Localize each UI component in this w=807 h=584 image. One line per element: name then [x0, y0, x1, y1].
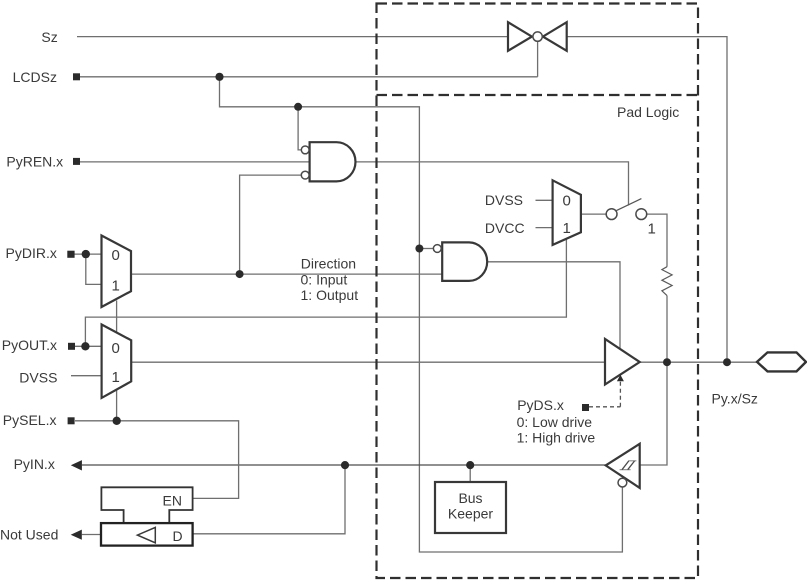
- node NAND2 feed: [415, 245, 423, 253]
- svg-text:PyOUT.x: PyOUT.x: [2, 337, 57, 353]
- wire PyIN.x: [82, 464, 606, 466]
- pad hexagon Py.x/Sz: [757, 352, 806, 371]
- svg-text:Direction: Direction: [301, 256, 356, 272]
- svg-text:DVSS: DVSS: [19, 369, 57, 385]
- wire mux1 and mux2 select to PySEL: [116, 301, 118, 421]
- U2 input bubble: [433, 245, 441, 253]
- node NAND1 feed: [294, 103, 302, 111]
- wire Sz left segment: [77, 36, 508, 38]
- svg-text:Not Used: Not Used: [0, 527, 58, 543]
- svg-text:DVCC: DVCC: [485, 220, 525, 236]
- transmission gate left triangle: [508, 22, 532, 51]
- svg-text:1: 1: [112, 369, 120, 386]
- wire transmission gate control: [537, 42, 539, 77]
- switch lever: [616, 199, 641, 211]
- wire mux3 select return to PyOUT node: [85, 239, 566, 346]
- wire DVSS to mux3 input 0: [536, 199, 553, 201]
- wire PyDIR.x branch to mux1 input 1: [86, 254, 102, 284]
- svg-text:EN: EN: [163, 492, 182, 508]
- node bus keeper tap: [466, 461, 474, 469]
- wire LCDSz horizontal: [80, 76, 538, 78]
- terminal square PyOUT.x: [68, 343, 75, 350]
- wire driver output to pad: [640, 361, 757, 363]
- svg-text:PyIN.x: PyIN.x: [14, 456, 55, 472]
- and-gate U2 (direction): [442, 242, 487, 281]
- wire PyOUT.x: [75, 345, 102, 347]
- U1 input bubble top: [301, 146, 309, 154]
- wire Direction branch up to NAND1 lower input: [240, 175, 302, 274]
- transmission gate right triangle: [543, 22, 567, 51]
- node PyOUT input: [81, 342, 89, 350]
- wire pad node down to Schmitt input: [639, 362, 667, 465]
- terminal square PySEL.x: [68, 417, 75, 424]
- node PyDIR input: [82, 250, 90, 258]
- svg-text:Bus: Bus: [458, 490, 482, 506]
- bus keeper box: [435, 482, 506, 533]
- wire Direction (mux1 output to NAND2 input): [131, 273, 442, 275]
- resistor R1: [662, 267, 672, 296]
- schmitt trigger input buffer: [606, 444, 640, 488]
- output driver triangle: [605, 339, 640, 385]
- resistor lead lower: [666, 296, 668, 363]
- wire bus keeper tap: [469, 465, 471, 482]
- terminal square PyDIR.x: [67, 251, 74, 258]
- switch bubble left: [606, 209, 617, 220]
- svg-text:Sz: Sz: [41, 29, 57, 45]
- wire PySEL.x to EN latch: [75, 421, 239, 499]
- svg-text:0: Input: 0: Input: [301, 271, 348, 287]
- pad logic box top edge: [377, 94, 699, 96]
- U1 input bubble bottom: [301, 171, 309, 179]
- svg-text:0: 0: [112, 340, 120, 357]
- wire switch to resistor: [647, 214, 667, 267]
- node LCDSz branch: [215, 73, 223, 81]
- svg-text:DVSS: DVSS: [485, 192, 523, 208]
- wire PyIN branch down to D latch: [193, 465, 345, 534]
- mux3 pull resistor select: [553, 180, 581, 245]
- wire branch to NAND1 top input: [298, 107, 301, 150]
- wire DVCC to mux3 input 1: [536, 227, 553, 229]
- D latch clock triangle: [137, 527, 155, 542]
- terminal square LCDSz: [73, 73, 80, 80]
- svg-text:LCDSz: LCDSz: [13, 69, 57, 85]
- wire mux3 output to switch: [581, 213, 606, 215]
- svg-text:1: High drive: 1: High drive: [517, 429, 596, 445]
- wire PyDIR.x: [75, 253, 102, 255]
- svg-text:PyDS.x: PyDS.x: [517, 397, 564, 413]
- svg-text:1: 1: [112, 278, 120, 295]
- wire NAND1 output to switch control: [356, 162, 629, 206]
- svg-text:PyREN.x: PyREN.x: [6, 153, 63, 169]
- EN latch outline: [101, 487, 192, 523]
- svg-text:Keeper: Keeper: [448, 506, 493, 522]
- svg-text:0: 0: [112, 247, 120, 264]
- switch bubble right: [636, 209, 647, 220]
- terminal square PyDS.x: [582, 404, 589, 411]
- arrow PyIN.x: [71, 460, 82, 470]
- terminal square PyREN.x: [73, 158, 80, 165]
- svg-text:1: 1: [648, 221, 656, 238]
- wire NAND2 output to driver enable: [487, 262, 620, 350]
- svg-text:Py.x/Sz: Py.x/Sz: [712, 390, 758, 406]
- D latch box: [101, 523, 193, 546]
- svg-text:PyDIR.x: PyDIR.x: [6, 245, 57, 261]
- node Sz pad join: [723, 358, 731, 366]
- mux1 PyDIR: [102, 236, 132, 308]
- wire DVSS to mux2 input 1: [71, 375, 102, 377]
- svg-text:1: Output: 1: Output: [301, 287, 359, 303]
- node driver output: [663, 358, 671, 366]
- svg-text:1: 1: [563, 220, 571, 237]
- wire PyREN.x: [80, 161, 310, 163]
- mux2 PyOUT: [102, 325, 132, 398]
- wire PyDS.x dashed control: [589, 382, 620, 407]
- schmitt hysteresis mark: [620, 461, 637, 470]
- wire Sz right segment to pad column: [567, 37, 727, 363]
- svg-text:0: 0: [563, 193, 571, 210]
- PyDS arrowhead: [617, 375, 624, 382]
- arrow Not Used: [71, 530, 82, 540]
- wire branch to NAND2 top input: [419, 248, 433, 250]
- svg-text:PySEL.x: PySEL.x: [3, 412, 57, 428]
- transmission gate circle: [533, 32, 542, 41]
- wire mux2 output to driver input: [131, 361, 605, 363]
- wire Not Used output: [82, 534, 102, 536]
- outer dashed boundary: [377, 4, 699, 579]
- node PyIN D branch: [341, 461, 349, 469]
- svg-text:D: D: [173, 528, 183, 544]
- svg-text:Pad Logic: Pad Logic: [617, 104, 679, 120]
- and-gate U1 (PyREN enable): [310, 142, 356, 181]
- node Direction branch: [236, 270, 244, 278]
- svg-text:0: Low drive: 0: Low drive: [517, 414, 593, 430]
- schmitt enable bubble: [618, 478, 627, 487]
- node PySEL input: [113, 417, 121, 425]
- wire LCDSz branch down and across to input disable path: [220, 77, 623, 552]
